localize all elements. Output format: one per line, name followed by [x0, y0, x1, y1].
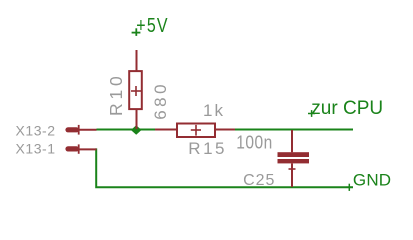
svg-text:zur CPU: zur CPU: [311, 98, 383, 119]
svg-text:R10: R10: [106, 72, 126, 116]
svg-text:1k: 1k: [203, 101, 225, 120]
svg-text:100n: 100n: [236, 131, 272, 153]
svg-text:GND: GND: [353, 171, 391, 190]
svg-text:X13-2: X13-2: [16, 123, 56, 139]
svg-text:R15: R15: [188, 139, 227, 158]
svg-text:X13-1: X13-1: [16, 141, 56, 157]
svg-text:+5V: +5V: [136, 13, 168, 36]
svg-text:680: 680: [151, 81, 170, 120]
svg-text:C25: C25: [243, 172, 275, 189]
